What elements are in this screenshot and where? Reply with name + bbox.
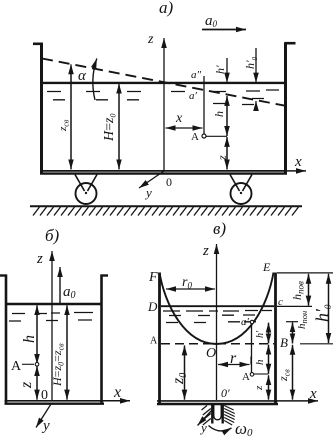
dimension H=z0=zsv fig b (50, 305, 67, 399)
svg-text:hпов: hпов (290, 281, 306, 300)
dimension r0 (166, 275, 215, 291)
tank left lip (33, 42, 43, 45)
svg-text:z: z (215, 155, 229, 161)
svg-text:B: B (280, 335, 288, 350)
tank b left wall (5, 275, 8, 405)
point A fig a (191, 131, 206, 143)
tank b right lip (101, 274, 109, 276)
wheel 1 (76, 183, 97, 204)
water dashes fig a (47, 90, 279, 105)
svg-text:z: z (36, 251, 43, 267)
vessel bottom (157, 400, 278, 402)
svg-text:ω0: ω0 (235, 419, 253, 439)
y axis fig v (198, 410, 213, 436)
svg-text:0: 0 (166, 175, 172, 189)
dimension x fig a (166, 111, 203, 128)
acceleration arrow a0 fig b (60, 267, 76, 303)
AB dashed line (161, 343, 274, 345)
svg-text:zсв: zсв (276, 369, 292, 382)
svg-text:h′: h′ (213, 65, 227, 74)
dimension h'0 fig v (312, 274, 333, 343)
svg-text:z: z (147, 32, 154, 47)
svg-text:A: A (150, 336, 158, 347)
tick A to dimension line (206, 135, 227, 137)
tank left wall (40, 43, 43, 174)
AB level tick right (300, 343, 333, 345)
tilted free surface dashed (42, 59, 288, 107)
water line fig a (43, 82, 285, 84)
x axis fig v (278, 386, 318, 402)
svg-text:zсв: zсв (57, 119, 71, 132)
svg-text:a0: a0 (205, 13, 218, 29)
x axis fig a (287, 154, 306, 171)
C level tick line (277, 305, 312, 307)
angle alpha arc (93, 59, 97, 101)
svg-text:h: h (21, 335, 38, 343)
svg-text:z: z (18, 381, 35, 389)
svg-text:x: x (113, 384, 121, 401)
svg-text:0: 0 (41, 388, 48, 403)
wheel 1 fork (75, 175, 97, 192)
svg-text:0′: 0′ (221, 386, 230, 400)
ground hatching (33, 207, 299, 216)
wheel 2 (231, 183, 252, 204)
svg-text:z0: z0 (170, 373, 189, 385)
dimension z0 fig v (170, 345, 189, 399)
svg-text:h′0: h′0 (312, 304, 333, 322)
svg-text:x: x (294, 154, 302, 170)
tank right lip (285, 42, 296, 45)
E level tick line (277, 272, 333, 274)
bearing hatch right (224, 406, 235, 426)
svg-text:hпон: hпон (296, 311, 309, 329)
static level D line (161, 305, 274, 307)
vessel right wall (274, 273, 277, 405)
svg-text:A: A (242, 371, 250, 383)
svg-text:D: D (147, 299, 158, 314)
svg-text:A: A (11, 359, 22, 374)
y axis fig a (139, 171, 164, 200)
guide line from a'' to A (203, 76, 205, 135)
svg-text:в): в) (213, 219, 226, 238)
tank b left lip (0, 274, 7, 276)
dimension h_pon (293, 311, 310, 344)
svg-text:z: z (253, 385, 265, 391)
dimension h_pov (290, 274, 309, 306)
svg-text:h′: h′ (255, 330, 266, 338)
dimension h fig b (21, 305, 38, 364)
wheel 2 fork (230, 175, 252, 192)
a' level tick line (286, 321, 298, 323)
z axis fig v (202, 243, 217, 400)
svg-text:O: O (206, 346, 216, 361)
svg-text:y: y (41, 418, 50, 434)
dimension z_sv fig a (57, 64, 71, 169)
guide line a' to A fig v (251, 324, 253, 373)
dimension h fig a (212, 96, 227, 136)
svg-text:H=z0: H=z0 (102, 114, 118, 142)
svg-text:б): б) (45, 226, 60, 245)
ground line (30, 205, 302, 207)
point A fig v (242, 371, 254, 383)
svg-text:z: z (202, 243, 209, 259)
svg-text:y: y (199, 420, 207, 435)
dimension h' fig a (213, 58, 227, 83)
omega0 rotation arrow (209, 419, 254, 439)
z axis fig a (147, 32, 164, 170)
dimension z_sv fig v (276, 345, 293, 400)
svg-text:a0: a0 (63, 284, 76, 301)
svg-text:а): а) (159, 0, 174, 17)
svg-text:h: h (212, 111, 226, 117)
water line fig b (7, 303, 101, 305)
dimension z fig b (18, 366, 37, 400)
bearing hatch left (202, 406, 211, 426)
dimension z fig v (253, 375, 269, 399)
dimension r fig v (218, 350, 251, 367)
parabola surface (160, 273, 274, 345)
svg-text:E: E (262, 260, 271, 274)
water dashes fig b (9, 313, 93, 322)
x axis fig b (104, 384, 130, 401)
water dashes fig v (163, 311, 272, 323)
svg-text:r0: r0 (182, 275, 192, 291)
svg-text:F: F (148, 270, 158, 285)
z axis fig b (36, 251, 52, 400)
tank bottom double line (40, 170, 287, 172)
dimension h' fig v (255, 323, 269, 344)
svg-text:x: x (309, 386, 317, 402)
tank b right wall (100, 275, 103, 405)
vessel left wall (158, 273, 161, 405)
svg-text:x: x (175, 111, 183, 126)
svg-text:a′: a′ (189, 90, 198, 102)
acceleration arrow a0 (202, 13, 246, 30)
tank right wall (284, 43, 287, 174)
dimension z fig a (215, 137, 229, 170)
svg-text:a′: a′ (241, 316, 250, 328)
svg-text:h: h (254, 359, 266, 365)
svg-text:a″: a″ (191, 69, 202, 81)
tank b bottom (5, 400, 105, 402)
dimension h fig v (254, 345, 269, 374)
point a' fig v (241, 316, 254, 328)
shaft (212, 405, 222, 424)
y axis fig b (36, 404, 51, 434)
svg-text:h′0: h′0 (243, 56, 259, 69)
svg-text:r: r (230, 350, 237, 367)
dimension H=z0 fig a (102, 84, 119, 170)
svg-text:A: A (191, 131, 199, 143)
dimension h'0 fig a (243, 48, 259, 110)
tick A to dim line fig v (254, 373, 269, 375)
svg-text:y: y (144, 185, 152, 200)
svg-text:α: α (78, 68, 87, 84)
point A fig b (11, 359, 39, 374)
